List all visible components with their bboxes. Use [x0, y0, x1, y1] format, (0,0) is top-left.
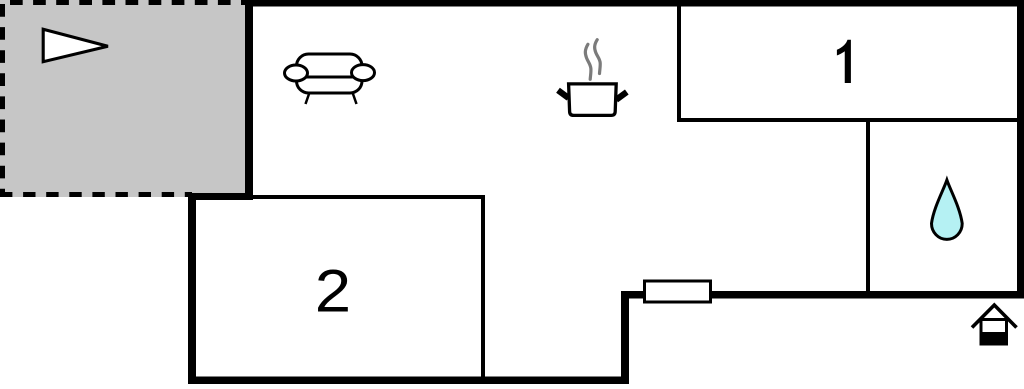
exterior wall bottom-left section: [188, 377, 629, 385]
sofa leg right: [353, 93, 357, 105]
room number 1: [837, 40, 851, 83]
pot body: [569, 84, 617, 116]
terrace dashed border top: [0, 0, 249, 5]
pot handle right: [616, 92, 627, 100]
steam squiggle left: [585, 44, 591, 79]
terrace dashed border bottom: [0, 192, 192, 197]
house icon black base: [981, 332, 1008, 345]
exterior wall top: [245, 0, 1024, 7]
svg-text:2: 2: [315, 258, 351, 325]
interior wall room2 top: [194, 195, 485, 199]
interior wall room1 bottom: [677, 118, 1017, 122]
terrace dashed border left: [0, 0, 5, 197]
exterior wall connector under terrace: [188, 193, 253, 200]
exterior wall upper-left: [245, 0, 253, 200]
sofa armrest left: [285, 65, 308, 81]
house icon roof: [972, 305, 1017, 328]
exterior wall step vertical: [621, 291, 629, 384]
door symbol on bottom wall: [645, 281, 711, 302]
interior wall room2 right: [481, 195, 485, 377]
sofa icon body: [297, 54, 363, 93]
exterior wall bottom-right section: [621, 291, 1024, 299]
pot handle left: [558, 90, 569, 98]
steam squiggle right: [595, 40, 601, 74]
interior wall bathroom divider: [866, 120, 870, 291]
exterior wall left lower: [188, 193, 196, 384]
sofa seat line: [305, 76, 354, 79]
house icon body: [981, 320, 1007, 345]
interior wall room1 left: [677, 6, 681, 122]
sofa leg left: [306, 93, 310, 105]
exterior wall right: [1017, 0, 1024, 298]
terrace gray area: [0, 0, 249, 197]
water drop: [932, 180, 963, 239]
sofa armrest right: [352, 65, 375, 81]
terrace direction triangle: [43, 29, 108, 61]
